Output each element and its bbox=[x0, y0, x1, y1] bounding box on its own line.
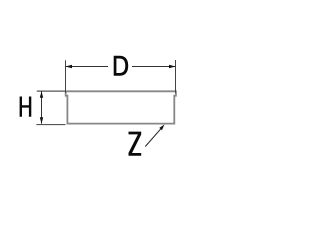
label Z bbox=[129, 132, 142, 156]
dimension D left arrowhead bbox=[66, 65, 73, 68]
dimension D line left segment bbox=[66, 66, 109, 68]
dimension D right extension line bbox=[175, 60, 177, 93]
Z leader line bbox=[145, 129, 160, 146]
label D bbox=[114, 56, 129, 76]
dimension H bottom arrowhead bbox=[40, 117, 43, 124]
Z leader arrowhead bbox=[159, 125, 164, 131]
dimension H top arrowhead bbox=[40, 91, 43, 98]
dimension D right arrowhead bbox=[169, 65, 176, 68]
label H bbox=[20, 97, 32, 117]
part body outline (flanged cap cross-section) bbox=[66, 91, 176, 123]
dimension H top extension line bbox=[37, 90, 65, 92]
dimension D line right segment bbox=[132, 66, 176, 68]
dimension D left extension line bbox=[65, 60, 67, 93]
dimension H line bbox=[41, 91, 43, 124]
dimension H bottom extension line bbox=[36, 124, 65, 126]
